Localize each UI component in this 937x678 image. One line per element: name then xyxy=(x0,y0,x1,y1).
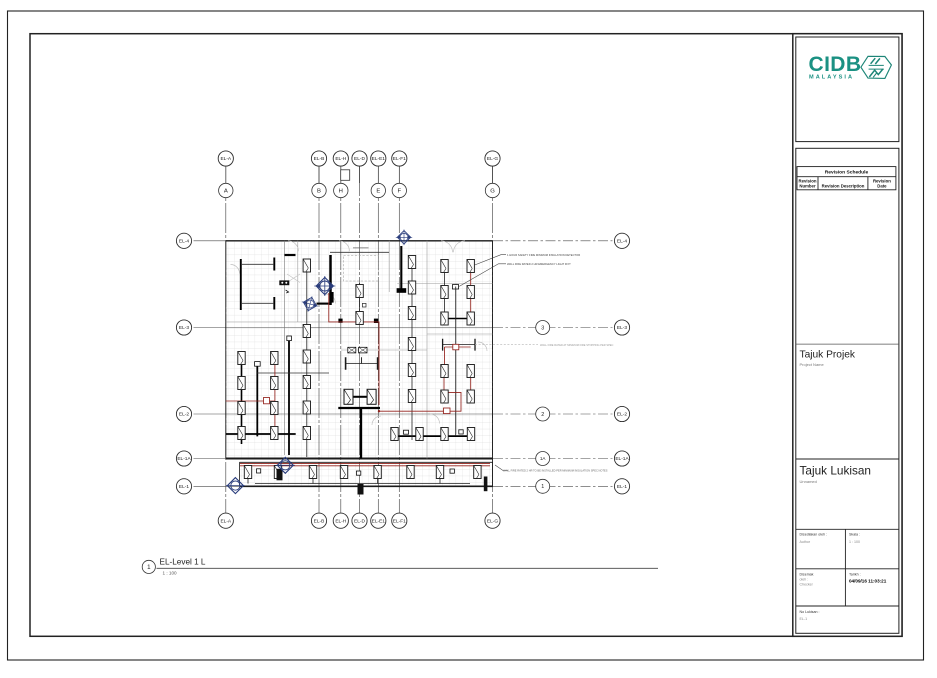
svg-text:1 : 100: 1 : 100 xyxy=(163,571,177,576)
column grid lines (vertical) xyxy=(226,166,493,513)
row grid lines (horizontal) xyxy=(194,241,613,486)
title block inner: logo cell xyxy=(796,37,899,142)
svg-text:Date: Date xyxy=(877,183,887,188)
Tajuk Projek section xyxy=(796,343,899,345)
svg-text:WALL FIRE RATED AT MINIMUM FIR: WALL FIRE RATED AT MINIMUM FIRE STOPPING… xyxy=(540,343,614,347)
right numbered circles xyxy=(536,321,550,335)
svg-text:Disemak: Disemak xyxy=(800,573,814,577)
svg-text:E: E xyxy=(376,189,380,195)
svg-text:EL-1: EL-1 xyxy=(617,484,627,490)
svg-text:1A: 1A xyxy=(540,456,547,461)
svg-text:EL-A: EL-A xyxy=(220,156,231,162)
svg-text:EL-1A: EL-1A xyxy=(177,456,191,462)
svg-text:MALAYSIA: MALAYSIA xyxy=(809,75,854,81)
svg-text:Project Name: Project Name xyxy=(800,362,825,367)
svg-text:A: A xyxy=(224,189,228,195)
door swing arcs xyxy=(231,241,488,425)
equipment box EB xyxy=(279,280,289,293)
svg-text:EL-2: EL-2 xyxy=(179,412,189,418)
dashed equipment outline xyxy=(344,256,379,282)
red circuit wiring xyxy=(226,267,490,466)
svg-text:3: 3 xyxy=(541,325,544,331)
svg-text:Number: Number xyxy=(799,183,816,188)
corridor fixtures xyxy=(244,466,251,479)
svg-text:EL-E1: EL-E1 xyxy=(372,156,386,162)
view title: EL-Level 1 L xyxy=(142,560,155,573)
beam symbol right (below EL-3) xyxy=(443,339,475,351)
svg-text:Revision Schedule: Revision Schedule xyxy=(825,170,869,176)
corridor dark blocks xyxy=(277,469,283,481)
svg-text:EL-1: EL-1 xyxy=(179,484,189,490)
building outline walls xyxy=(226,241,493,486)
svg-text:G: G xyxy=(490,189,495,195)
top letter circles xyxy=(219,183,233,197)
beam symbol center xyxy=(346,357,378,370)
annotation leaders xyxy=(459,255,508,471)
circuit wiring (dark) xyxy=(242,262,471,484)
svg-text:EL-4: EL-4 xyxy=(617,239,627,245)
lighting fixtures xyxy=(238,352,245,365)
section marker square on grid D xyxy=(341,170,350,181)
right grid bubbles xyxy=(614,233,629,248)
left grid bubbles xyxy=(176,233,191,248)
CIDB Malaysia logo xyxy=(809,53,862,81)
svg-text:H: H xyxy=(339,189,343,195)
svg-text:F: F xyxy=(397,189,401,195)
top grid bubble connectors xyxy=(226,166,493,183)
svg-text:EL-E1: EL-E1 xyxy=(372,518,386,524)
svg-text:EL-D: EL-D xyxy=(354,518,365,524)
svg-text:oleh :: oleh : xyxy=(800,578,809,582)
revision schedule table xyxy=(797,167,896,190)
top grid bubbles EL labels xyxy=(218,151,233,166)
blue diamond EL-1 xyxy=(226,478,245,494)
svg-text:EL-G: EL-G xyxy=(487,518,498,524)
svg-text:Disediakan oleh :: Disediakan oleh : xyxy=(800,533,828,537)
svg-text:EL-2: EL-2 xyxy=(617,412,627,418)
svg-text:Unnamed: Unnamed xyxy=(800,479,817,484)
svg-text:EL-F1: EL-F1 xyxy=(393,518,406,524)
info cells grid xyxy=(796,529,899,606)
corridor junction boxes xyxy=(257,469,455,475)
svg-text:EL-A: EL-A xyxy=(220,518,231,524)
building ceiling-grid hatch xyxy=(226,241,493,459)
svg-text:EL-1A: EL-1A xyxy=(615,456,629,462)
svg-text:EL-4: EL-4 xyxy=(179,239,189,245)
blue damper symbol top (grid F) xyxy=(396,230,412,246)
fixtures center-top xyxy=(356,285,363,298)
toilet core large fixtures xyxy=(344,389,353,404)
svg-text:EL-D: EL-D xyxy=(354,156,365,162)
svg-text:1: 1 xyxy=(147,564,151,571)
svg-text:EL-3: EL-3 xyxy=(617,325,627,331)
wall blocks center xyxy=(329,292,333,303)
interior partitions xyxy=(226,241,493,459)
small switch boxes xyxy=(255,285,464,435)
svg-text:EL-1: EL-1 xyxy=(800,617,808,621)
svg-text:Tajuk Lukisan: Tajuk Lukisan xyxy=(800,464,871,478)
svg-text:WALL FIRE RATED 2 HR TO BE INS: WALL FIRE RATED 2 HR TO BE INSTALLED PER… xyxy=(503,469,608,473)
svg-text:EL-H: EL-H xyxy=(335,156,346,162)
svg-text:1 HOUR SAFETY FIRE MINIMUM INS: 1 HOUR SAFETY FIRE MINIMUM INSULATION DE… xyxy=(507,253,580,257)
svg-text:Tarikh :: Tarikh : xyxy=(849,573,861,577)
svg-text:Checker: Checker xyxy=(800,583,814,587)
svg-text:No Lukisan :: No Lukisan : xyxy=(800,610,820,614)
bold interior walls xyxy=(226,246,475,459)
Tajuk Lukisan section xyxy=(796,458,899,460)
svg-text:2: 2 xyxy=(541,412,544,418)
svg-text:Tajuk Projek: Tajuk Projek xyxy=(800,350,856,361)
svg-text:04/09/16 11:03:21: 04/09/16 11:03:21 xyxy=(849,579,887,584)
svg-text:EL-3: EL-3 xyxy=(179,325,189,331)
svg-text:Revision Description: Revision Description xyxy=(822,183,865,188)
svg-text:EL-B: EL-B xyxy=(314,518,325,524)
svg-text:Author: Author xyxy=(800,540,811,544)
blue fan symbol 1 xyxy=(314,276,335,296)
fixture row lower-right xyxy=(391,428,398,441)
svg-text:B: B xyxy=(317,189,321,195)
blue fan symbol 2 xyxy=(300,294,320,314)
svg-text:WALL FIRE RATED 2 HR EMERGENCY: WALL FIRE RATED 2 HR EMERGENCY LIGHT FIX… xyxy=(507,262,571,266)
title block outer xyxy=(793,34,902,637)
svg-text:Skala :: Skala : xyxy=(849,533,860,537)
svg-text:1 : 100: 1 : 100 xyxy=(849,540,860,544)
CIDB hexagon mark xyxy=(861,56,892,78)
gray leader EL-3 right xyxy=(475,344,538,346)
svg-text:CIDB: CIDB xyxy=(809,53,862,76)
svg-text:EL-F1: EL-F1 xyxy=(393,156,406,162)
blue diamond corridor xyxy=(276,457,295,473)
svg-text:EL-G: EL-G xyxy=(487,156,498,162)
title block inner: main cell xyxy=(796,148,899,633)
svg-text:1: 1 xyxy=(541,484,544,490)
svg-text:EL-B: EL-B xyxy=(314,156,325,162)
svg-text:EL-H: EL-H xyxy=(335,518,346,524)
bottom grid bubbles xyxy=(218,513,233,528)
svg-text:EL-Level 1 L: EL-Level 1 L xyxy=(160,558,206,567)
